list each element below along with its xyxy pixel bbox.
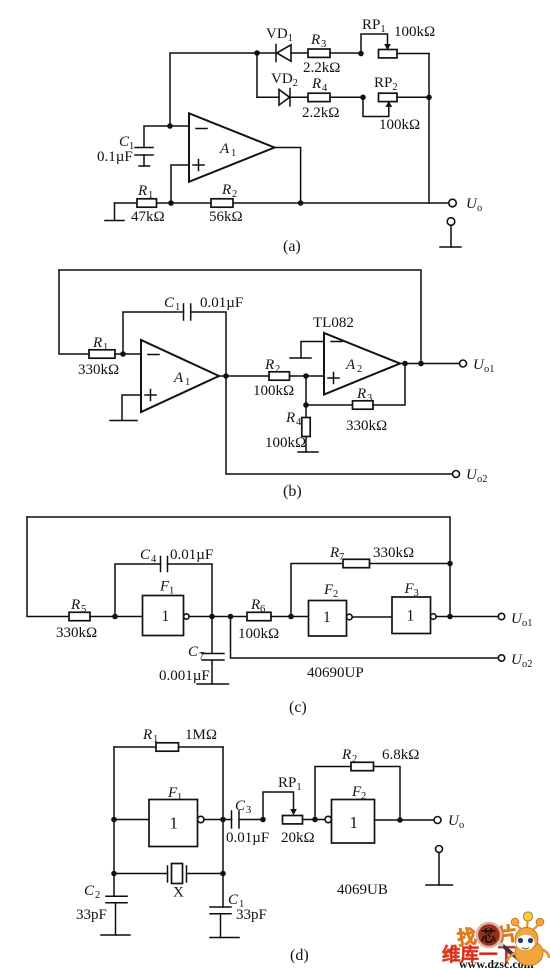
node: F2 input / R7 tap [288,614,294,620]
node: output junction [397,817,403,823]
svg-text:4: 4 [322,83,328,94]
inverter F2 (input bubble) [325,816,331,822]
svg-text:R: R [310,32,320,48]
svg-text:2: 2 [352,754,357,765]
svg-text:R: R [142,727,152,743]
svg-text:X: X [173,885,184,901]
wire: A1 output to R2 [219,375,269,377]
node: R3 feedback tap [402,361,408,367]
capacitor C4 0.01uF [160,557,162,572]
resistor R7 330k feedback [291,564,343,617]
potentiometer RP2 100k [363,97,389,116]
node: F2 input / R2 tap [312,817,318,823]
svg-text:100kΩ: 100kΩ [394,24,435,40]
node: F1 input [111,817,117,823]
node: output on rail [298,200,304,206]
capacitor C2 33pF [106,895,127,897]
svg-text:C: C [235,798,246,814]
resistor R2 56k [211,199,233,207]
node: R7 right on vertical [447,561,453,567]
svg-text:o2: o2 [522,659,533,670]
capacitor C7 0.001uF to ground [211,617,213,654]
resistor R3 2.2k [308,49,330,57]
inverter F1 [114,819,149,821]
node: output junction [447,614,453,620]
resistor R4 2.2k [308,93,330,101]
wire: top feedback [59,270,421,364]
svg-text:3: 3 [246,805,251,816]
wire: Uo2 from A1 output [226,376,453,474]
resistor R1 47k [137,199,157,207]
svg-text:o1: o1 [522,618,533,629]
svg-text:4: 4 [296,417,302,428]
resistor R1 1M feedback [114,746,156,748]
svg-text:R: R [250,597,260,613]
svg-text:1: 1 [148,190,153,201]
svg-text:2: 2 [357,364,362,375]
ground stub left [114,203,116,221]
svg-text:(c): (c) [289,699,307,716]
diode VD1 (pointing left) [275,45,277,62]
svg-text:100kΩ: 100kΩ [379,117,420,133]
capacitor C1 33pF [210,906,231,908]
svg-text:(b): (b) [283,483,302,500]
svg-text:A: A [219,141,230,157]
svg-text:1MΩ: 1MΩ [185,727,217,743]
resistor R3 330k [306,404,353,406]
op-amp A1 [141,340,219,412]
wire: left vertical [113,747,115,896]
node: crystal right [220,871,226,877]
svg-text:2.2kΩ: 2.2kΩ [302,105,339,121]
watermark magnifier [477,923,501,947]
svg-text:2.2kΩ: 2.2kΩ [303,60,340,76]
svg-text:6.8kΩ: 6.8kΩ [382,747,419,763]
svg-text:C: C [84,883,95,899]
wire: left vertical to R5 [27,517,69,617]
svg-text:A: A [173,370,184,386]
wire: down to VD2 branch [256,53,258,97]
svg-text:2: 2 [333,589,338,600]
wire: C1 feedback branch [123,312,184,354]
svg-text:VD1: VD1 [266,26,293,44]
svg-text:1: 1 [231,148,236,159]
svg-text:R: R [285,410,295,426]
terminal Uo2 [453,471,460,478]
svg-text:VD2: VD2 [271,71,298,89]
resistor R5 330k [69,612,90,620]
svg-text:R: R [221,182,231,198]
svg-text:C: C [140,547,151,563]
svg-text:1: 1 [407,608,415,625]
capacitor C1 0.1uF [135,147,153,149]
svg-text:C: C [188,644,199,660]
svg-text:C: C [164,295,175,311]
wire: F3 output to terminal [436,616,498,618]
wire: A2 output to terminal [400,363,459,365]
wire: node to C1 [144,126,170,148]
svg-text:2: 2 [275,364,280,375]
svg-text:20kΩ: 20kΩ [281,830,315,846]
svg-text:3: 3 [414,588,419,599]
capacitor C3 0.01uF [231,811,233,828]
wire: F1 output to C3 [204,819,232,821]
ground below R4 [298,451,318,453]
svg-text:5: 5 [81,604,86,615]
watermark pencil [502,945,523,963]
bottom rail wire [115,202,449,204]
diode VD2 (pointing right) [279,90,290,106]
svg-text:RP1: RP1 [362,17,386,35]
wire: VD2 branch [257,96,279,98]
svg-text:100kΩ: 100kΩ [253,383,294,399]
svg-text:R: R [264,357,274,373]
svg-text:3: 3 [321,39,326,50]
node: junction of feedback and diode branches [254,50,260,56]
svg-text:RP2: RP2 [374,75,398,93]
resistor R4 100k (vertical) [305,405,307,418]
wire: node to VD1 [257,52,276,54]
svg-text:33pF: 33pF [236,907,267,923]
svg-text:100kΩ: 100kΩ [265,435,306,451]
node: inverting input [167,123,173,129]
svg-text:0.01µF: 0.01µF [200,295,243,311]
wire: node to inverting input [170,125,189,127]
svg-text:7: 7 [199,651,204,662]
svg-text:1: 1 [103,342,108,353]
svg-text:3: 3 [367,393,372,404]
svg-text:R: R [70,597,80,613]
resistor R2 100k [269,372,290,380]
terminal Uo2 [498,655,504,661]
wire: F2 output to terminal [375,819,435,821]
wire: F2 to F3 [352,616,392,618]
wire: Uo2 branch [231,617,499,659]
node: top feedback tap [418,361,424,367]
wire: top feedback rail [27,517,450,617]
svg-text:0.01µF: 0.01µF [226,830,269,846]
svg-text:1: 1 [177,792,182,803]
svg-text:o1: o1 [484,364,495,375]
node: Uo2 tap [228,614,234,620]
potentiometer RP1 20k [263,792,294,820]
svg-text:1: 1 [185,377,190,388]
svg-text:2: 2 [361,791,366,802]
svg-text:56kΩ: 56kΩ [209,209,243,225]
node: right bus join [426,95,432,101]
svg-text:330kΩ: 330kΩ [373,545,414,561]
svg-text:1: 1 [350,813,359,832]
svg-text:7: 7 [339,552,344,563]
svg-text:R: R [311,76,321,92]
svg-text:o2: o2 [477,474,488,485]
svg-text:C: C [228,892,239,908]
node: R1/R2 junction [168,200,174,206]
wire: feedback from inverting input up and right [170,53,257,126]
inverter F3 [392,597,431,634]
svg-text:1: 1 [170,814,179,833]
capacitor C1 0.01uF [183,304,185,320]
svg-text:2: 2 [95,890,100,901]
resistor R1 330k [89,350,115,358]
wire: F1 output to R6 [189,616,247,618]
resistor R2 6.8k feedback [315,767,351,820]
resistor R6 100k [247,612,271,620]
svg-text:o: o [477,203,482,214]
svg-text:330kΩ: 330kΩ [56,625,97,641]
svg-text:1: 1 [153,734,158,745]
terminal Uo [434,817,441,824]
wire: non-inverting input to rail [171,165,189,203]
svg-text:A: A [345,357,356,373]
node: R3 right / RP1 wiper branch [358,51,364,57]
svg-text:0.001µF: 0.001µF [159,668,210,684]
inverter F2 [309,601,347,637]
svg-text:0.1µF: 0.1µF [97,149,133,165]
svg-text:0.01µF: 0.01µF [170,547,213,563]
svg-text:o: o [459,820,464,831]
svg-text:R: R [341,747,351,763]
svg-text:R: R [356,386,366,402]
svg-text:1: 1 [175,302,180,313]
wire: + input to ground [122,395,141,420]
svg-text:(d): (d) [290,947,309,964]
terminal Uo [449,199,457,207]
node: C3 right / RP1 tap [260,817,266,823]
ground terminal below Uo [447,218,455,226]
node: F1 output [220,817,226,823]
node: inverting input of A1 [120,351,126,357]
svg-text:1: 1 [162,608,170,625]
wire: left vertical to R1 [59,270,89,354]
node: crystal left [111,871,117,877]
svg-text:1: 1 [169,586,174,597]
svg-text:6: 6 [260,604,265,615]
watermark mascot [507,912,549,966]
crystal X [114,873,168,875]
svg-text:2: 2 [232,189,237,200]
node: C4 right tap [209,614,215,620]
wire: right vertical [222,747,224,907]
inverter F1 [143,596,184,636]
node: R4 right / RP2 wiper branch [360,95,366,101]
ground at A2 - input [290,357,311,359]
svg-text:330kΩ: 330kΩ [78,362,119,378]
wire: right bus down to output rail [428,54,430,204]
svg-text:R: R [92,335,102,351]
ground terminal below Uo [436,846,443,853]
svg-text:芯: 芯 [481,927,496,945]
node: + input of A2 [303,373,309,379]
svg-text:33pF: 33pF [76,907,107,923]
ground at A1 + input [110,420,137,422]
svg-text:1: 1 [323,609,331,626]
wire: node down to R3/R4 junction [305,376,307,405]
terminal Uo1 [460,360,467,367]
svg-text:40690UP: 40690UP [307,665,364,681]
svg-text:RP1: RP1 [278,775,302,793]
wire: C4 feedback branch [115,564,161,617]
svg-text:4: 4 [151,554,157,565]
svg-text:4069UB: 4069UB [337,882,388,898]
node: R3/R4 junction [303,402,309,408]
node: A1 output [223,373,229,379]
svg-text:(a): (a) [283,238,301,255]
wire: A1 output right and down [275,148,301,204]
terminal Uo1 [498,613,504,619]
svg-text:R: R [137,183,147,199]
svg-text:330kΩ: 330kΩ [346,418,387,434]
node: F1 input [112,614,118,620]
op-amp A2 [324,333,400,395]
op-amp A1 [189,113,275,182]
svg-text:TL082: TL082 [313,315,354,331]
potentiometer RP1 100k [361,34,388,54]
svg-text:100kΩ: 100kΩ [238,626,279,642]
svg-text:47kΩ: 47kΩ [131,209,165,225]
wire: - input of A2 to ground [301,342,324,359]
svg-text:R: R [329,545,339,561]
